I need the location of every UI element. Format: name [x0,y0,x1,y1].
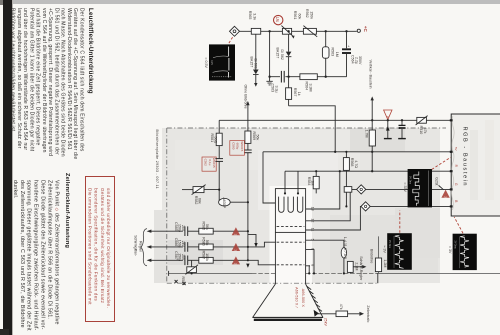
svg-text:56Ω: 56Ω [213,137,217,144]
wire from vertical module [371,96,374,172]
resistor R584 [307,170,319,193]
svg-text:R584: R584 [307,177,311,186]
svg-text:BA157: BA157 [249,57,253,68]
svg-text:≈ 3V: ≈ 3V [382,246,386,254]
top scanner strip [0,0,500,4]
CRT socket box [275,189,305,233]
svg-text:2V 2ms: 2V 2ms [388,240,391,249]
CRT funnel [253,284,323,317]
svg-text:1,7M: 1,7M [364,130,368,138]
wire pin6 to return [310,250,314,274]
wire cathode R to RGB [310,171,451,209]
svg-text:C586: C586 [174,238,178,247]
svg-text:Bildröhre: Bildröhre [370,249,374,263]
red dashed leader diamond to oscillogram [228,37,233,44]
svg-text:150k: 150k [310,11,314,19]
svg-text:3,3µ: 3,3µ [274,86,278,93]
wire g2 column [263,152,275,203]
warning triangle (red) on blanking line [384,110,392,120]
svg-text:C564: C564 [350,55,354,64]
svg-text:56k: 56k [205,240,209,246]
svg-text:R567: R567 [293,88,297,97]
node bus junctions [247,230,249,232]
svg-text:WK015: WK015 [212,158,216,168]
wire R567 to grid1 column [289,106,336,152]
wire stub with arrow [248,234,256,243]
screen grid line 1 (arrow, C585, R585, warning) [147,222,248,237]
resistor R563 [322,31,339,76]
svg-text:R586: R586 [201,237,205,246]
resistor R565 [248,11,261,34]
svg-text:≈ 3V: ≈ 3V [448,246,452,254]
capacitor to ground 2 [398,119,406,139]
node junction E [325,76,327,78]
svg-text:350V: 350V [358,56,362,65]
node junction C [345,30,347,32]
diode Di562 [276,34,292,76]
svg-text:R561: R561 [293,11,297,20]
svg-text:B: B [454,200,458,202]
svg-text:A66-500 X: A66-500 X [301,289,306,308]
resistor R567 [286,77,302,106]
svg-text:R563: R563 [331,48,335,57]
svg-text:Regler: Regler [139,241,143,253]
RGB-Baustein module box [451,114,500,216]
red dashed leader photo4 [454,217,463,233]
svg-text:0,2V: 0,2V [210,60,213,65]
svg-text:2: 2 [443,196,447,198]
node socket feed junctions [284,192,286,194]
pin stubs and numbers on neck [306,207,315,267]
potentiometer R562 [303,9,317,37]
wire arrow down on bus [246,264,249,268]
screen grid line 2 (arrow, C586, R586, warning) [147,237,248,252]
wire cathode G to RGB [310,189,451,220]
board outline Bildroehrenplatte (dash-dot) [167,128,446,283]
resistor R316 on vertical wire [364,130,375,147]
svg-text:60k: 60k [297,14,301,20]
node test point diamond 2 [361,202,370,211]
wire video top rail y152 [263,151,451,153]
oscillogram photo 4 [448,234,477,270]
grid loop 2 [288,197,293,213]
svg-text:68k: 68k [198,198,202,204]
svg-text:47k: 47k [423,128,427,134]
svg-text:150p: 150p [177,240,181,248]
resistor on G rail [344,187,352,193]
svg-text:56k: 56k [205,224,209,230]
svg-text:R310: R310 [419,126,423,135]
svg-text:1M: 1M [335,52,339,57]
resistor R564 [300,74,317,92]
text block 2: Zeilenruecklauf-Austastung [10,173,70,335]
svg-text:C563: C563 [270,84,274,93]
node flyback test point (diamond) [230,26,240,36]
node junction G1 rail [334,151,336,153]
red warning box [85,176,115,322]
text block 1: Leuchtfleck-Unterdrueckung [9,8,94,166]
svg-text:8: 8 [386,116,390,118]
svg-text:Schirmgitter-: Schirmgitter- [134,235,138,257]
capacitor C564 (electrolytic) [342,31,362,76]
svg-text:Zeilentrafo: Zeilentrafo [366,305,370,322]
svg-text:2kV: 2kV [181,241,185,248]
red dashed leader photo2 to RGB pin [432,157,451,169]
wire blanking line [219,119,451,121]
label G2 with leader [435,177,444,190]
svg-text:Di 561: Di 561 [254,59,258,69]
svg-text:A66-510 X /: A66-510 X / [295,287,300,308]
red circled test point UF [274,15,283,24]
svg-text:C585: C585 [174,222,178,231]
wire cathode B to RGB [310,206,451,230]
capacitor C563 [270,71,284,93]
svg-text:11: 11 [311,228,315,232]
potentiometer R561 [281,11,301,39]
svg-text:Bildröhrenplatte 29303 - 007.: Bildröhrenplatte 29303 - 007.11 [155,130,159,189]
svg-text:Schärfe-Regler: Schärfe-Regler [359,256,363,281]
svg-text:≈ 0,5V: ≈ 0,5V [204,58,208,69]
svg-text:25kV: 25kV [324,318,328,327]
node test point diamond 1 [357,185,366,194]
red boxed special part label C582 [202,157,216,171]
svg-text:0,1µ: 0,1µ [208,159,212,165]
svg-text:C582: C582 [204,159,208,167]
svg-text:4,7Ω: 4,7Ω [354,160,358,168]
svg-text:R564: R564 [304,82,308,91]
anode wire with 47k [314,304,371,327]
svg-text:1k: 1k [297,92,301,96]
svg-text:+: + [348,45,350,49]
spark gap 1-4,11-9,7,8,3 [341,237,347,275]
wire main top rail [240,30,357,32]
label CRT type (red) [295,287,306,308]
wire screen-grid feed to neck electrode [248,242,276,247]
dashed electrodes inside neck [277,226,305,264]
potentiometer R583 below line 3 [181,260,198,285]
capacitor to ground 1 [384,119,392,139]
svg-text:5V 2ms: 5V 2ms [409,176,412,185]
wire drops into socket [285,171,298,193]
red boxed special part label C580 [230,141,245,156]
wire common return line [169,272,252,274]
svg-text:Vertikal - Baustein: Vertikal - Baustein [369,60,373,89]
svg-text:1-4,11-9,7,8,3: 1-4,11-9,7,8,3 [343,237,347,259]
svg-text:680p: 680p [236,143,240,150]
CRT screen face [252,316,323,318]
resistor R569 + capacitor C581 column [244,101,260,260]
svg-text:56k: 56k [256,135,260,141]
svg-text:R581: R581 [210,134,214,143]
ground below node A [266,76,272,85]
svg-text:≈ 33V: ≈ 33V [403,183,407,193]
wire focus out with arrow [353,266,362,268]
svg-text:RGB - Baustein: RGB - Baustein [462,127,468,188]
svg-text:150p: 150p [177,224,181,232]
white zone behind CRT neck [270,186,313,284]
svg-text:47k: 47k [339,304,343,310]
resistor R310 47k [416,116,428,135]
wire vertical from node A [269,31,271,76]
wire grid4 feed to neck electrode [248,260,276,265]
svg-text:R569: R569 [252,132,256,141]
resistor R568 [343,151,357,208]
resistor R581 + capacitor heater column [210,120,223,202]
wire bottom return rail [270,76,347,78]
svg-text:C580: C580 [231,142,235,150]
warning triangle (red) near RGB module [441,190,449,198]
node junction D [287,76,289,78]
svg-text:R587: R587 [201,251,205,260]
svg-text:C587: C587 [174,251,178,260]
svg-text:3,3M: 3,3M [309,84,313,92]
RGB module pin letters [454,147,458,202]
board shading Bildroehrenplatte [162,128,440,283]
wire pin8 to return [308,266,311,274]
svg-text:BA157: BA157 [276,48,280,59]
oscillogram photo 2 [403,169,432,207]
svg-text:R582: R582 [194,196,198,205]
screen grid line 3 (arrow, C587, R587, warning) [147,251,248,266]
svg-text:2,2µ: 2,2µ [354,57,358,64]
svg-text:A630P: A630P [222,197,226,208]
potentiometer R582 [182,185,220,205]
svg-text:R562: R562 [305,9,309,18]
resistor focus 2,2M [347,261,358,273]
svg-text:R565: R565 [248,11,252,20]
svg-text:2kV: 2kV [181,254,185,261]
red dashed leader photo3 [399,210,401,232]
svg-text:3,3k: 3,3k [252,13,256,20]
wire focus pin to spark gap [310,240,344,247]
node junction B [287,30,289,32]
grid loop 1 [279,197,284,213]
svg-text:+C: +C [363,26,368,33]
CRT neck [275,232,305,284]
svg-text:Di 562: Di 562 [280,50,284,60]
oscillogram photo 1 [204,44,235,80]
diode Di561 [249,34,258,87]
oscillogram photo 3 [382,233,411,270]
svg-text:1,2M: 1,2M [383,259,387,267]
svg-text:Us: Us [275,17,280,23]
svg-text:150p: 150p [177,253,181,261]
brace for screen-grid adjust [141,229,147,266]
svg-text:G2St: G2St [435,177,439,185]
svg-text:R585: R585 [201,222,205,231]
svg-text:2kV: 2kV [181,225,185,232]
RGB module pin ticks [450,119,453,207]
heater connector A6 30P [219,197,249,208]
svg-text:1M: 1M [310,180,314,185]
svg-text:5V: 5V [454,147,458,151]
svg-text:100k: 100k [205,253,209,261]
svg-text:2V 2ms: 2V 2ms [454,241,457,250]
svg-text:R568: R568 [350,158,354,167]
binding shadow bar [3,0,12,335]
grid loop 3 [297,197,302,213]
node junction A [268,30,270,32]
junction crosses on board edge [175,280,186,285]
svg-text:WK015: WK015 [240,141,244,151]
wire y171 rail [285,170,340,172]
node +C terminal [357,26,368,33]
CRT anode coating hatching [307,286,322,311]
node junction cathode R [339,170,341,172]
